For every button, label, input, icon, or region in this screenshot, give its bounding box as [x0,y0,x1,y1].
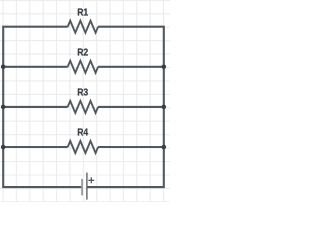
node junction left row4 [1,145,6,150]
battery plus sign [88,177,94,183]
resistor R4 [68,141,98,153]
resistor R1 [68,21,98,33]
wire left bus with top-left and bottom-left corners [3,27,82,187]
battery B1 short plate (negative) [81,179,83,195]
resistor R3 [68,101,98,113]
node junction left row3 [1,105,6,110]
node junction right row4 [162,145,167,150]
svg-text:R4: R4 [77,127,88,139]
resistor R2 [68,61,98,73]
battery B1 long plate (positive) [86,173,88,200]
grid background [0,0,170,202]
svg-text:R1: R1 [77,6,88,18]
svg-text:R2: R2 [77,46,88,58]
wire row4 left [3,146,68,148]
svg-text:R3: R3 [77,87,88,99]
wire row4 right [98,146,164,148]
wire row3 right [98,106,164,108]
wire row2 left [3,66,68,68]
node junction right row2 [162,65,167,70]
wire right bus with top-right and bottom-right corners [87,27,164,187]
wire row2 right [98,66,164,68]
node junction left row2 [1,65,6,70]
wire row3 left [3,106,68,108]
node junction right row3 [162,105,167,110]
